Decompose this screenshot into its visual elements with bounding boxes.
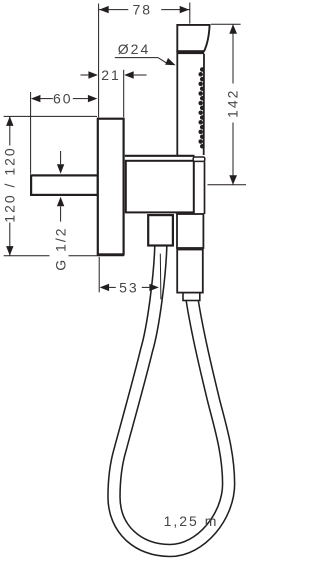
hose crimp sleeve at hand shower bbox=[183, 293, 200, 301]
holder hook lip bbox=[193, 157, 205, 161]
dimension 120/120 bbox=[4, 115, 97, 117]
dimension 53 bbox=[98, 257, 100, 292]
extension line wall face (for dims 78 60 21) bbox=[98, 4, 100, 118]
wall outlet hose nipple bbox=[148, 215, 173, 245]
dimension 60 bbox=[30, 92, 32, 174]
holder top plate line bbox=[125, 155, 195, 157]
hand shower grip knurl bumps bbox=[198, 67, 204, 148]
svg-text:Ø24: Ø24 bbox=[118, 41, 150, 57]
hose (1.25 m shower hose loop) bbox=[114, 246, 229, 551]
hand shower handle outline bbox=[177, 54, 204, 155]
hand shower hose nut bbox=[177, 250, 203, 293]
extension line hand shower axis (for dim 78) bbox=[189, 3, 191, 24]
wall escutcheon plate (side view) bbox=[98, 119, 124, 255]
hand shower head outline bbox=[177, 25, 209, 53]
svg-text:1,25 m: 1,25 m bbox=[164, 513, 219, 529]
svg-text:78: 78 bbox=[133, 2, 153, 18]
hand shower conical connector bbox=[177, 214, 203, 248]
G 1/2 supply pipe arm bbox=[31, 175, 98, 195]
svg-text:G 1/2: G 1/2 bbox=[52, 226, 68, 270]
hand shower joint band bbox=[176, 50, 204, 54]
connector right edge below lip bbox=[204, 162, 206, 215]
svg-text:60: 60 bbox=[53, 91, 73, 107]
svg-text:53: 53 bbox=[119, 279, 139, 295]
svg-text:120 / 120: 120 / 120 bbox=[2, 146, 18, 222]
svg-text:21: 21 bbox=[101, 67, 121, 83]
svg-text:142: 142 bbox=[225, 89, 241, 118]
dimension 142 bbox=[211, 23, 241, 25]
dimension 78 bbox=[99, 9, 190, 11]
dimension 21 bbox=[81, 74, 89, 76]
label G 1/2 with arrows bbox=[60, 151, 62, 164]
extension line plate rear face bbox=[123, 70, 125, 117]
extension line of dim 53 (hose centerline) bbox=[159, 254, 162, 300]
holder block body bbox=[126, 161, 194, 213]
